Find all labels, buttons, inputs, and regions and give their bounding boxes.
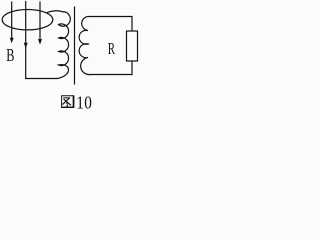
wire: secondary top lead <box>90 17 133 32</box>
transformer core <box>74 7 76 84</box>
transformer secondary coil L2 <box>79 16 90 74</box>
label B <box>6 46 14 66</box>
wire: left lead down from loop <box>25 48 27 79</box>
flux loop ellipse <box>2 10 53 30</box>
wire: loop to primary coil top lead <box>48 11 63 13</box>
wire: resistor bottom to return <box>91 61 133 75</box>
svg-text:10: 10 <box>76 92 92 112</box>
svg-text:B: B <box>6 46 14 66</box>
B field arrow 2 <box>24 2 28 49</box>
wire: bottom of primary circuit <box>26 78 58 80</box>
caption text 10 <box>76 92 92 112</box>
svg-text:R: R <box>108 40 116 59</box>
label R <box>108 40 116 59</box>
resistor R <box>127 31 138 61</box>
B field arrow 3 <box>38 2 42 45</box>
B field arrow 1 <box>10 2 14 43</box>
caption glyph 图 <box>62 96 74 108</box>
transformer primary coil L1 <box>58 12 71 79</box>
